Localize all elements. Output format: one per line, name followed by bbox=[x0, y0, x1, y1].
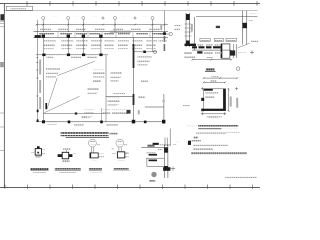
detail4 label line2 bbox=[113, 170, 131, 172]
extension room rotated label bbox=[138, 110, 140, 114]
node bottom axis2 bbox=[68, 121, 71, 124]
section lower horizontal line bbox=[192, 49, 231, 51]
left edge tick lines bbox=[0, 20, 4, 22]
left dim ticks bbox=[36, 58, 38, 97]
vertical wall mid bbox=[105, 55, 107, 122]
labelled box 1 bbox=[200, 38, 210, 41]
detail5 label underline bbox=[149, 180, 156, 182]
shear wall right black bbox=[223, 89, 226, 111]
extension room right wall bbox=[163, 94, 165, 124]
section label 1-1 bbox=[206, 68, 215, 71]
axis stem 3 bbox=[82, 20, 84, 32]
shear wall top-left black bbox=[204, 89, 213, 91]
detail4 top ticks bbox=[118, 147, 120, 152]
node right interior bbox=[143, 51, 146, 53]
top-right wing vertical bbox=[164, 11, 166, 34]
detail1 label line2 bbox=[33, 171, 46, 173]
column text block 8 bbox=[146, 39, 157, 41]
column text block 3 bbox=[76, 39, 88, 41]
detail2 left bar bbox=[58, 154, 63, 157]
detail5 column right line bbox=[167, 145, 169, 178]
detail5 left vertical bbox=[146, 158, 148, 166]
detail4 left small text bbox=[111, 148, 114, 150]
detail4 bubble side text bbox=[124, 143, 127, 145]
top dimension line bbox=[36, 24, 168, 26]
section wall black fill bottom bbox=[186, 41, 190, 47]
detail3 label bubble bbox=[89, 139, 97, 147]
faint text mid plan right bbox=[141, 81, 148, 83]
right rotated dim text bbox=[230, 97, 232, 107]
tall wall black block bbox=[243, 23, 247, 28]
extension room divider bbox=[145, 106, 164, 108]
detail5 mid line bbox=[146, 157, 164, 159]
black blob right of stub bbox=[230, 50, 235, 55]
detail1 inner mark bbox=[37, 152, 39, 154]
section label underline bbox=[205, 70, 216, 72]
wall band text segments bbox=[39, 33, 54, 35]
dark mark on dim line bbox=[216, 26, 220, 28]
label above room bbox=[113, 93, 125, 95]
detail5 column black lower bbox=[164, 166, 168, 170]
faint text left of square detail bbox=[183, 102, 192, 104]
axis stem 5 bbox=[152, 20, 154, 52]
vertical wall axis2 bbox=[67, 38, 69, 55]
cluster text bbox=[175, 142, 179, 144]
column stub in section bbox=[221, 44, 230, 58]
interior grid line right segment bbox=[134, 51, 158, 53]
text block right of plan bbox=[138, 56, 152, 58]
top wall lower line bbox=[34, 37, 169, 39]
detail2 top tick bbox=[66, 150, 68, 152]
detail5 black bar mid bbox=[149, 154, 157, 156]
detail note line 2 bbox=[196, 133, 226, 135]
detail3 label line2 bbox=[90, 171, 103, 173]
beam hatched band bbox=[192, 46, 221, 48]
axis cross mark a bbox=[102, 17, 105, 20]
detail4 bottom text bbox=[118, 159, 125, 161]
bubble at right interior line bbox=[153, 50, 156, 53]
dim marks on left dim line bbox=[37, 110, 39, 113]
section dim line lower bbox=[192, 59, 233, 61]
square detail bottom dim line bbox=[201, 113, 225, 115]
room box top line bbox=[106, 95, 134, 97]
column blob axis1 bbox=[42, 35, 45, 38]
sheet border: left line bbox=[3, 4, 5, 188]
sheet border: top tick marks bbox=[27, 1, 257, 6]
axis bubble 3 bbox=[82, 17, 85, 20]
detail5 black bar lower bbox=[149, 160, 157, 162]
detail4 label bubble bbox=[116, 139, 124, 147]
detail4 right text a bbox=[125, 152, 128, 154]
cross mark right of section bbox=[250, 50, 254, 54]
square detail right dim line bbox=[228, 88, 230, 111]
leader diagonal upper bbox=[58, 61, 95, 75]
note marker B bbox=[194, 137, 199, 139]
corner cross top-right bbox=[235, 87, 238, 90]
room text block bbox=[108, 98, 120, 100]
small vertical in room band bbox=[101, 108, 103, 121]
column text block 7 bbox=[132, 39, 143, 41]
dim smudges left of section wall bbox=[174, 25, 181, 27]
sheet border: bottom tick marks bbox=[5, 185, 253, 189]
node bottom axis1 bbox=[42, 120, 45, 123]
detail3 bubble side text bbox=[97, 143, 100, 145]
sheet border: top outer line bbox=[0, 3, 260, 5]
axis bubble 1 bbox=[42, 17, 45, 20]
hall text block C bbox=[88, 88, 99, 90]
corner cross bottom-right bbox=[223, 112, 226, 115]
text fuzz near section line bbox=[215, 52, 223, 54]
column text block 9 bbox=[159, 39, 167, 41]
square detail dim line 2 bbox=[203, 81, 225, 83]
notes line 3 bbox=[191, 152, 247, 154]
hall text block A bbox=[46, 68, 60, 70]
detail1 left text bbox=[31, 151, 34, 153]
text fuzz above beam bbox=[197, 44, 203, 46]
section wall rotated text bbox=[191, 24, 193, 32]
column text block 5 bbox=[105, 39, 115, 41]
column blob left end bbox=[35, 35, 41, 38]
column text block 2 bbox=[61, 39, 73, 41]
section wall right line bbox=[189, 13, 191, 47]
dim text under interior line bbox=[47, 57, 54, 59]
corner cross bottom-left bbox=[201, 112, 204, 115]
node bottom extension mid bbox=[144, 121, 147, 124]
plan bottom wall line bbox=[36, 121, 165, 123]
column text block 4 bbox=[91, 39, 102, 41]
axis cross mark b bbox=[134, 17, 137, 20]
left edge mid block bbox=[0, 62, 4, 67]
vertical wall axis4 bbox=[100, 38, 102, 55]
text under line bbox=[204, 52, 213, 54]
left edge revision block bbox=[0, 14, 4, 20]
labelled box 3 bbox=[226, 38, 237, 41]
right wall dark segment lower bbox=[133, 94, 135, 105]
section left vertical line bbox=[194, 17, 196, 50]
detail5 column left line bbox=[163, 145, 165, 178]
notes line 2 bbox=[193, 148, 213, 150]
notes bullet bbox=[191, 139, 201, 141]
detail5 top text b bbox=[160, 144, 171, 146]
plan interior line bbox=[43, 113, 106, 115]
hall text block B bbox=[93, 70, 105, 72]
section dim right end text bbox=[250, 14, 257, 16]
plan title underline bbox=[66, 137, 109, 139]
detail5 top text a bbox=[147, 144, 153, 146]
axis stem 4 bbox=[114, 20, 116, 32]
vertical wall axis3 bbox=[82, 38, 84, 55]
wing node bbox=[163, 32, 166, 35]
notes line 1 bbox=[193, 145, 228, 147]
node interior mid bbox=[75, 112, 77, 114]
beam label row above top wall bbox=[40, 29, 51, 31]
node bottom axis4 bbox=[100, 121, 103, 124]
detail4 label line1 bbox=[114, 167, 129, 169]
leader diagonal steep bbox=[47, 78, 57, 110]
detail title underline bbox=[198, 128, 221, 130]
detail4 rect bbox=[117, 152, 124, 158]
detail1 right text a bbox=[42, 150, 45, 152]
detail2 top text bbox=[63, 148, 71, 150]
detail2 bottom text bbox=[62, 160, 69, 162]
detail2 right small text bbox=[73, 153, 76, 155]
interior grid line with nodes bbox=[36, 54, 108, 56]
wing axis bubble bbox=[169, 32, 172, 35]
black marks under line bbox=[197, 51, 202, 53]
detail1 label line1 bbox=[30, 168, 48, 170]
dim text below bottom line mid bbox=[74, 124, 84, 126]
detail3 right text b bbox=[99, 156, 104, 158]
detail3 rect bbox=[90, 153, 98, 158]
axis stem 1 bbox=[42, 20, 44, 32]
dim text above bottom line bbox=[81, 116, 86, 118]
node axis2 on interior line bbox=[67, 54, 70, 57]
plan title scale bbox=[110, 133, 118, 136]
dark mark right of room text bbox=[127, 110, 131, 114]
section wall left line bbox=[185, 13, 187, 47]
column blob axis2 bbox=[67, 35, 70, 38]
band separation ticks bbox=[58, 32, 150, 38]
bottom dim text bbox=[206, 115, 222, 117]
section wall tick marks bbox=[185, 24, 192, 36]
column blob axis3 bbox=[82, 35, 85, 38]
detail3 bottom text bbox=[91, 159, 98, 161]
node axis1 on interior line bbox=[42, 54, 45, 57]
detail5 text below bar bbox=[151, 162, 158, 164]
detail5 top text c bbox=[173, 143, 177, 145]
text band in room row bbox=[84, 110, 93, 112]
tall wall side text bbox=[249, 19, 254, 21]
marks right of column stub bbox=[233, 44, 236, 58]
detail1 bottom text bbox=[36, 157, 41, 159]
node bottom right big bbox=[132, 120, 135, 124]
labelled box 2 bbox=[214, 38, 223, 41]
node axis3 on interior line bbox=[82, 54, 85, 57]
column text block 6 bbox=[118, 39, 129, 41]
section label bubble bbox=[236, 67, 240, 71]
detail3 left edge black bbox=[90, 153, 92, 158]
top-right wing horizontal with bubble bbox=[158, 33, 169, 35]
detail4 left text bbox=[112, 153, 116, 155]
axis bubble 4 bbox=[114, 17, 117, 20]
detail5 gray circle bbox=[151, 172, 156, 177]
room box right wall bbox=[133, 38, 135, 122]
square detail inner text bbox=[205, 92, 218, 94]
square detail outline bbox=[204, 89, 226, 111]
detail5 top line bbox=[141, 147, 168, 149]
detail4 label underline bbox=[114, 169, 129, 171]
title strip text bbox=[11, 7, 27, 9]
axis stem 2 bbox=[67, 20, 69, 32]
node bottom extension right bbox=[162, 120, 165, 124]
dim text row above axis bubbles bbox=[52, 15, 58, 17]
detail5 side text bbox=[158, 149, 163, 151]
top wall upper line bbox=[34, 31, 169, 33]
detail3 label line1 bbox=[89, 167, 102, 169]
section wall black fill top bbox=[186, 14, 190, 20]
detail1 bottom dim bbox=[35, 155, 41, 157]
sheet border: top inner line bbox=[4, 10, 257, 12]
detail4 right text b bbox=[125, 155, 128, 157]
bottom right sign text bbox=[225, 177, 257, 179]
corner cross top-left bbox=[201, 87, 204, 90]
right edge wall dark segments bbox=[164, 36, 166, 42]
shear wall bottom black bbox=[204, 109, 226, 111]
detail title bbox=[198, 125, 238, 128]
title strip box top-left bbox=[6, 6, 32, 10]
column text block 1 bbox=[44, 39, 56, 41]
right rotated dim text 2 bbox=[236, 98, 238, 108]
wall stub left bottom bbox=[201, 109, 204, 112]
detail1 label underline bbox=[30, 169, 48, 171]
detail note line 1 bbox=[196, 131, 240, 133]
axis bubble 5 bbox=[151, 17, 154, 20]
hall text block R bbox=[111, 72, 123, 74]
cluster above detail5 verticals bbox=[165, 129, 170, 147]
extension right tick text bbox=[162, 99, 164, 102]
beam band base bar bbox=[185, 44, 197, 46]
square detail dim text 2 bbox=[210, 80, 216, 82]
plan title bbox=[61, 132, 109, 136]
tall wall right line bbox=[246, 11, 248, 45]
cluster black bar bbox=[153, 143, 159, 145]
left dim line of plan bbox=[36, 20, 38, 122]
text below bottom line left bbox=[48, 122, 57, 124]
detail3 label underline bbox=[89, 169, 102, 171]
cluster right black blob bbox=[188, 141, 191, 145]
right wall dark segment upper bbox=[133, 44, 135, 68]
detail3 right text a bbox=[99, 154, 104, 156]
left rotated dim text bbox=[39, 60, 41, 75]
dim text row above top dim line bbox=[49, 22, 58, 24]
dimension ticks on top dim line bbox=[36, 24, 166, 26]
dim text above lower dim bbox=[206, 57, 213, 59]
sheet border: bottom line bbox=[0, 187, 260, 189]
detail5 base black blob bbox=[163, 167, 170, 171]
leader note text bbox=[251, 41, 259, 44]
detail5 label bbox=[150, 179, 155, 181]
square detail dim text 1 bbox=[212, 75, 220, 77]
square detail dim line 1 bbox=[203, 77, 237, 79]
detail3 top ticks bbox=[91, 147, 93, 153]
detail5 lower line bbox=[147, 165, 164, 167]
tall wall left line bbox=[242, 11, 244, 45]
detail1 right text b bbox=[42, 153, 45, 155]
detail2 label underline bbox=[55, 169, 81, 171]
wall stub left mid bbox=[201, 98, 204, 101]
detail5 base cross bbox=[171, 167, 175, 171]
detail5 text block bbox=[146, 150, 156, 152]
leader diagonal lower bbox=[44, 96, 79, 113]
dark beam labels over band right bbox=[110, 30, 131, 33]
leader diagonal to note bbox=[238, 43, 250, 48]
dim smudges below section wall bbox=[184, 52, 192, 54]
vertical wall axis1 bbox=[42, 38, 44, 122]
detail1 column square bbox=[35, 149, 41, 156]
wing rotated dim text bbox=[160, 25, 162, 30]
detail2 right bar bbox=[69, 154, 73, 157]
column blob axis4 bbox=[99, 35, 102, 38]
detail2 label line2 bbox=[59, 171, 76, 173]
node axis4 on interior line bbox=[99, 54, 102, 57]
black bar left hall bbox=[45, 103, 47, 109]
detail2 label line1 bbox=[55, 167, 81, 169]
extension room label bbox=[138, 96, 145, 98]
detail5 top black bar bbox=[147, 145, 154, 146]
detail1 top tab bbox=[37, 146, 40, 148]
column stub left edge thick bbox=[221, 44, 223, 58]
detail5 column black upper bbox=[164, 147, 168, 152]
detail2 column square bbox=[62, 152, 68, 159]
axis bubble 2 bbox=[67, 17, 70, 20]
section dim horizontal line bbox=[196, 16, 258, 18]
